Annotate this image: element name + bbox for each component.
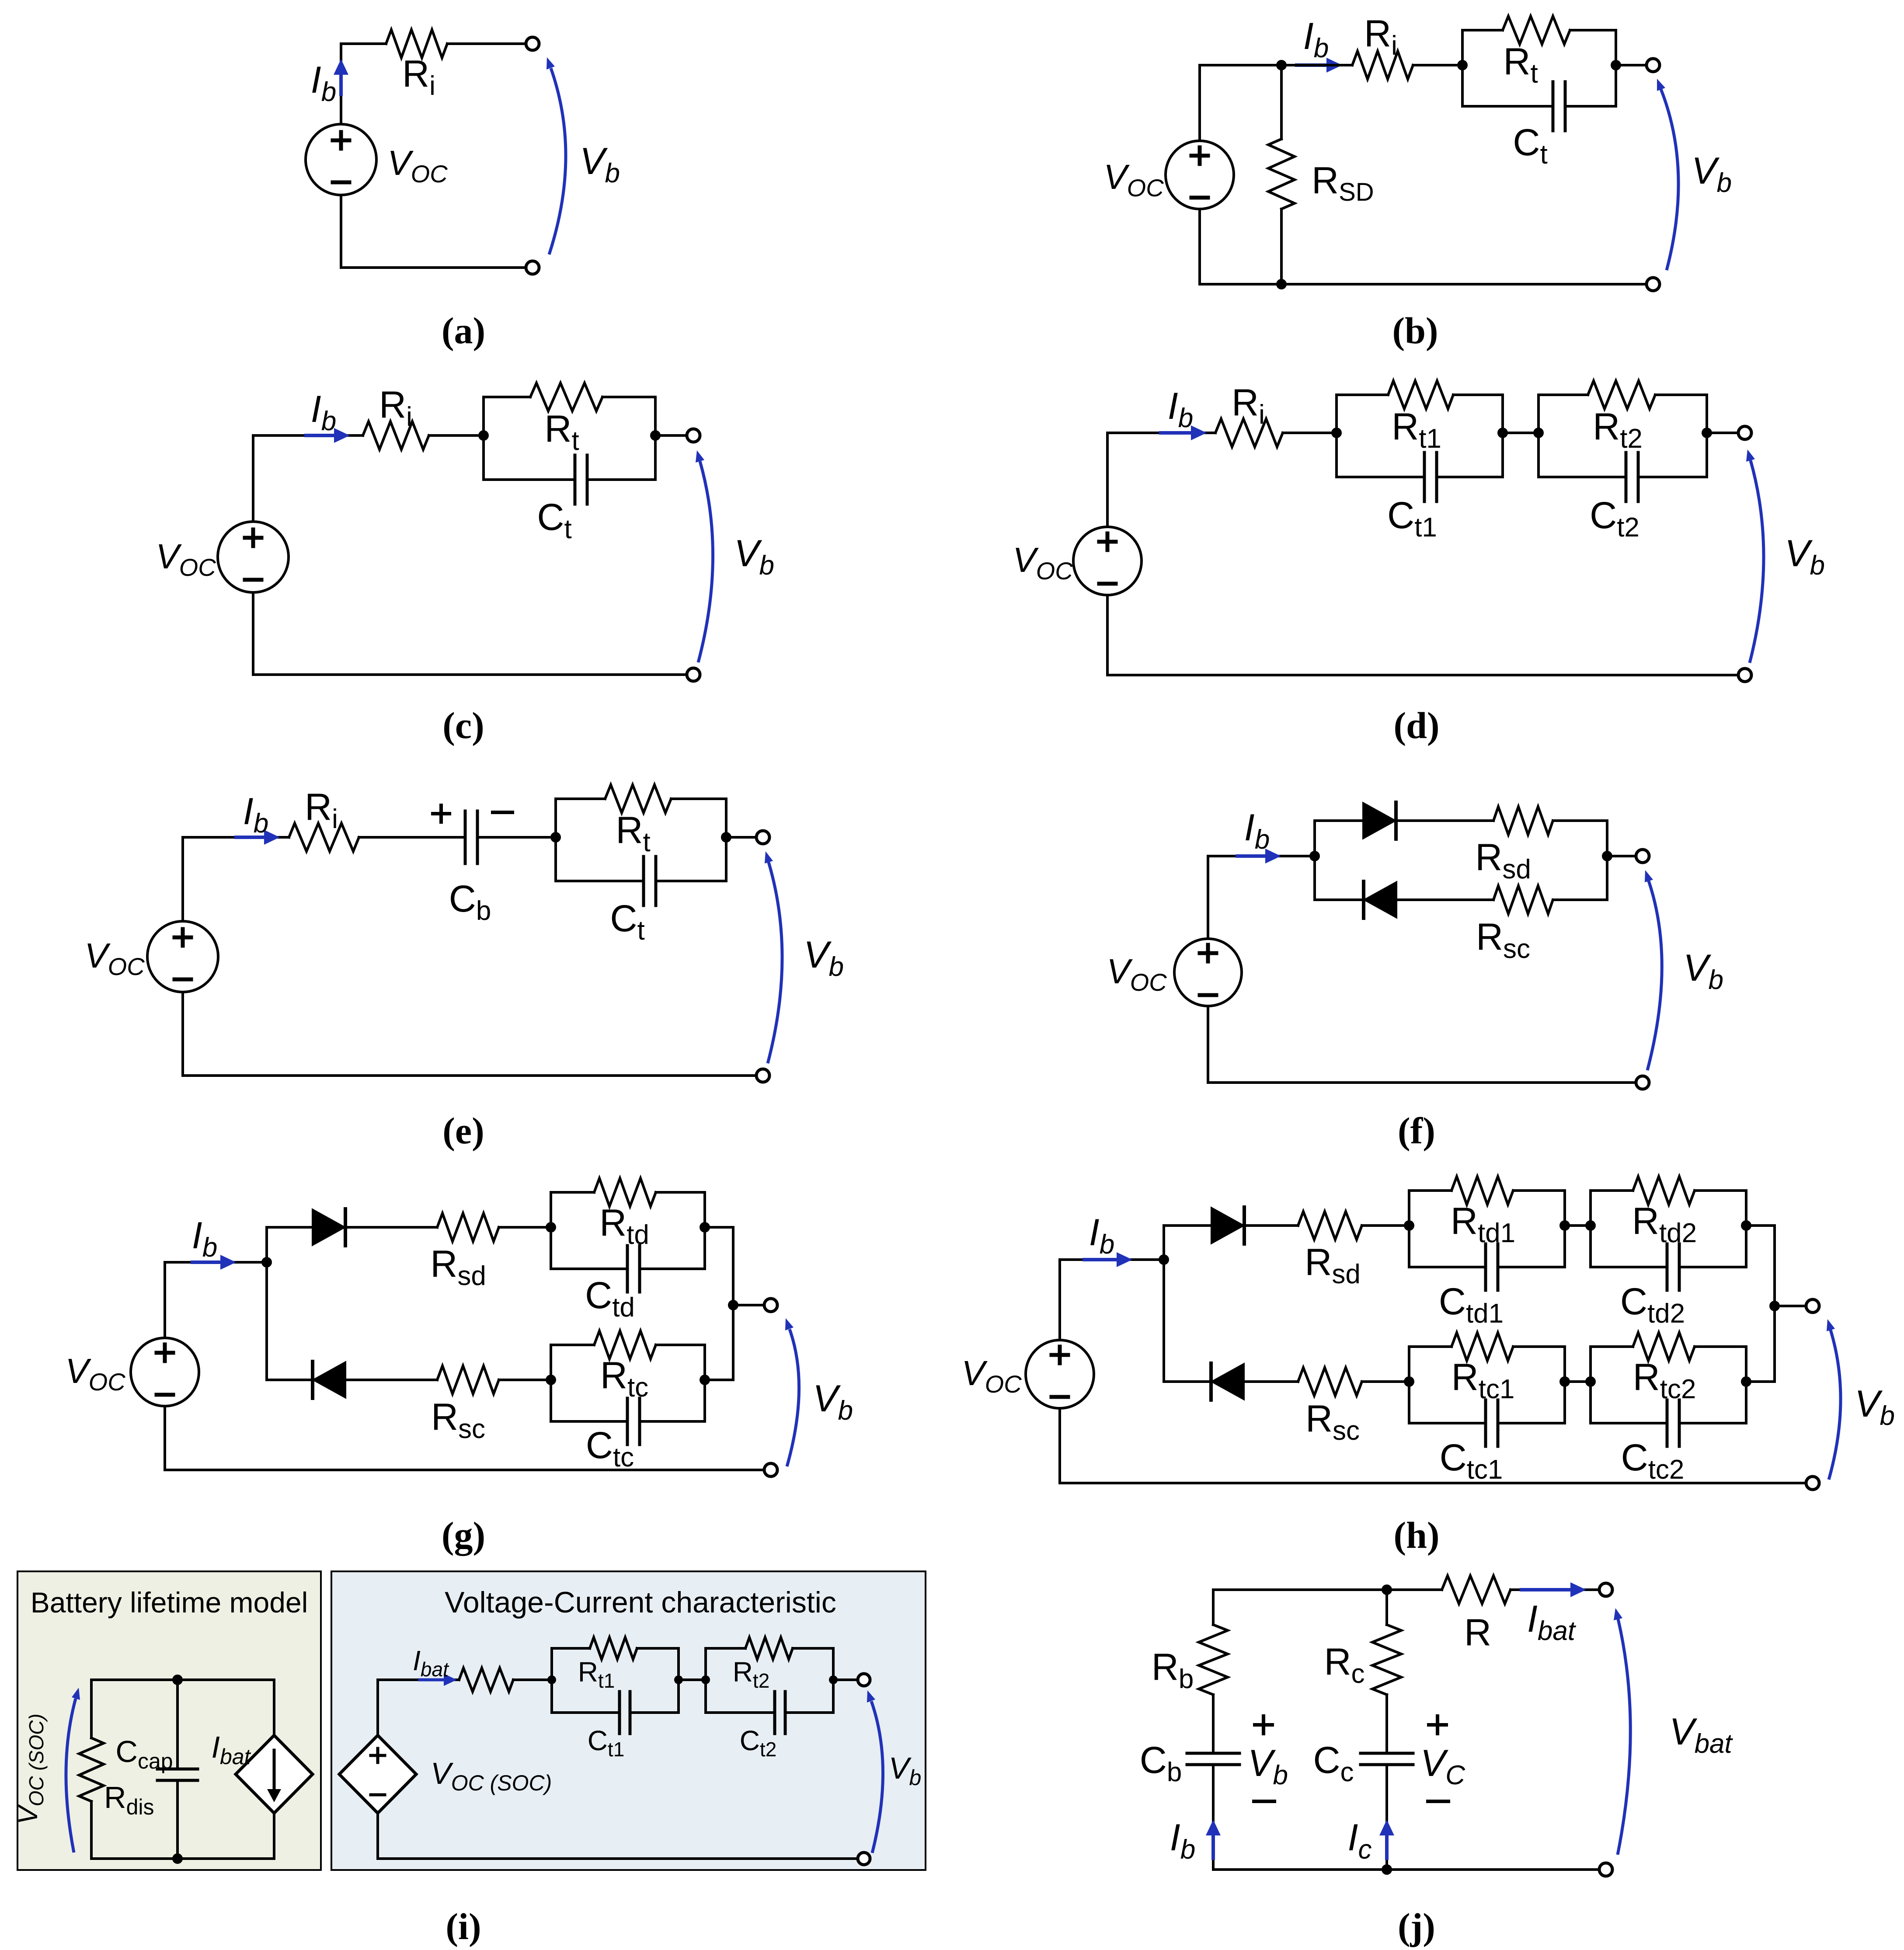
wire boxD to join (g) bbox=[705, 1226, 733, 1229]
svg-text:(b): (b) bbox=[1392, 310, 1438, 352]
node box2 right (d) bbox=[1702, 428, 1712, 438]
discharge branch wire (h) bbox=[1164, 1224, 1211, 1227]
voltage source VOC (c) bbox=[218, 522, 289, 592]
node boxD2 right (h) bbox=[1741, 1220, 1751, 1231]
battery lifetime model box (i) bbox=[17, 1571, 321, 1870]
wire boxC to join (g) bbox=[705, 1379, 733, 1381]
wire Ri to Cb (e) bbox=[359, 836, 465, 839]
voltage arc Vb (f) bbox=[1647, 881, 1662, 1070]
node box1 left (i) bbox=[547, 1675, 556, 1684]
circuit (b): left wire bbox=[1198, 65, 1201, 142]
node boxC1 right (h) bbox=[1559, 1376, 1570, 1387]
resistor Rsc (f) bbox=[1493, 886, 1553, 914]
terminal top (d) bbox=[1738, 426, 1751, 439]
RC box Rt1/Ct1 frame (i) bbox=[550, 1648, 553, 1713]
bottom wire (a) bbox=[341, 266, 526, 269]
svg-text:(d): (d) bbox=[1393, 704, 1439, 746]
node boxC2 left (h) bbox=[1585, 1376, 1596, 1387]
capacitor Ctd2 (h) bbox=[1666, 1244, 1669, 1290]
series resistor (i) bbox=[459, 1668, 513, 1692]
wire RSD lower (b) bbox=[1280, 209, 1283, 284]
voltage arc VOC(SOC) (i) bbox=[66, 1699, 76, 1852]
node Ccap top (i) bbox=[172, 1675, 183, 1685]
top wire (c) bbox=[253, 434, 363, 437]
RC box Rtc2/Ctc2 frame (h) bbox=[1589, 1347, 1592, 1423]
voltage arc Vb (d) bbox=[1750, 460, 1764, 663]
node top middle (j) bbox=[1382, 1584, 1392, 1595]
svg-text:(f): (f) bbox=[1398, 1110, 1435, 1152]
node join (h) bbox=[1769, 1301, 1780, 1311]
RC box Rt2/Ct2 frame (i) bbox=[704, 1648, 707, 1713]
wire to terminal (i) bbox=[833, 1678, 858, 1681]
svg-text:Battery lifetime model: Battery lifetime model bbox=[31, 1586, 308, 1619]
resistor Rtd (g) bbox=[594, 1178, 656, 1206]
resistor Rt2 (i) bbox=[745, 1637, 793, 1659]
terminal bottom (d) bbox=[1738, 669, 1751, 682]
current arrow Ib (a) bbox=[339, 73, 343, 94]
current arrow Ib (j) bbox=[1211, 1834, 1215, 1858]
current source Ibat diamond (i) bbox=[273, 1680, 275, 1735]
wire to terminal (e) bbox=[726, 836, 757, 839]
node split (g) bbox=[261, 1257, 272, 1267]
plus sign Cb (e) bbox=[433, 812, 449, 815]
diode discharge (g) bbox=[312, 1209, 345, 1246]
node box2 left (i) bbox=[701, 1675, 710, 1684]
circuit (f): left wire bbox=[1207, 856, 1209, 939]
wire to Ri (b) bbox=[1281, 64, 1352, 66]
capacitor Cb (e) bbox=[464, 811, 467, 864]
top wire to RSD node (b) bbox=[1200, 64, 1281, 66]
terminal top (g) bbox=[764, 1299, 777, 1312]
node Ccap bottom (i) bbox=[172, 1853, 183, 1864]
resistor Rtc (g) bbox=[594, 1331, 656, 1359]
charge branch wire (g) bbox=[267, 1379, 313, 1381]
capacitor Ctd (g) bbox=[626, 1246, 629, 1292]
diode discharge (f) bbox=[1363, 802, 1396, 839]
capacitor Ctc2 (h) bbox=[1666, 1400, 1669, 1446]
terminal top (f) bbox=[1636, 850, 1649, 863]
wire R to terminal (j) bbox=[1511, 1588, 1600, 1591]
capacitor Ct (c) bbox=[574, 455, 577, 504]
RC box Rtd1/Ctd1 frame (h) bbox=[1408, 1191, 1410, 1267]
node boxD2 left (h) bbox=[1585, 1220, 1596, 1231]
bottom wire (g) bbox=[165, 1469, 765, 1471]
node box left (b) bbox=[1457, 60, 1468, 70]
diode discharge (h) bbox=[1211, 1207, 1244, 1244]
voltage source VOC (h) bbox=[1026, 1340, 1094, 1408]
node at RSD bottom (b) bbox=[1276, 279, 1287, 289]
resistor Rt (e) bbox=[605, 785, 671, 813]
resistor Rt1 (d) bbox=[1388, 381, 1453, 409]
current arrow Ibat (i) bbox=[420, 1678, 446, 1682]
circuit (e): left wire bbox=[181, 837, 184, 921]
node box right (b) bbox=[1611, 60, 1621, 70]
plus sign VC (j) bbox=[1429, 1723, 1446, 1727]
resistor Rdis (i) bbox=[90, 1680, 93, 1738]
circuit (g): left wire bbox=[164, 1262, 166, 1338]
node box right (e) bbox=[721, 832, 731, 843]
charge branch wire (h) bbox=[1164, 1380, 1211, 1383]
resistor Rsd (g) bbox=[437, 1213, 499, 1241]
terminal bottom (c) bbox=[687, 668, 700, 681]
node bottom middle (j) bbox=[1382, 1864, 1392, 1875]
current arrow Ib (g) bbox=[192, 1261, 222, 1264]
top wire (g) bbox=[165, 1261, 267, 1264]
capacitor Ctd1 (h) bbox=[1484, 1244, 1487, 1290]
voltage arc Vb (b) bbox=[1661, 89, 1678, 270]
voltage source VOC (a) bbox=[306, 124, 376, 195]
current arrow Ib (b) bbox=[1297, 63, 1328, 67]
resistor Rsc (g) bbox=[437, 1366, 499, 1394]
wire Ri to box1 (d) bbox=[1283, 432, 1337, 434]
node box right (c) bbox=[650, 430, 661, 441]
circuit (c): left wire bbox=[252, 435, 254, 522]
terminal bottom (j) bbox=[1599, 1863, 1612, 1876]
node boxC1 left (h) bbox=[1404, 1376, 1414, 1387]
resistor Ri (a) bbox=[386, 30, 447, 58]
capacitor Ct (b) bbox=[1552, 82, 1555, 131]
capacitor Ctc (g) bbox=[626, 1398, 629, 1445]
node join (f) bbox=[1602, 851, 1612, 861]
svg-text:(c): (c) bbox=[442, 704, 484, 746]
resistor Rtd1 (h) bbox=[1451, 1177, 1513, 1205]
wire to terminal (c) bbox=[655, 434, 687, 437]
resistor R (j) bbox=[1442, 1576, 1511, 1604]
circuit (a): top wire bbox=[341, 42, 386, 45]
RC box Rtd2/Ctd2 frame (h) bbox=[1589, 1191, 1592, 1267]
branch frame (f) bbox=[1313, 821, 1316, 900]
wire to terminal (g) bbox=[733, 1304, 765, 1306]
minus sign VC (j) bbox=[1428, 1800, 1448, 1803]
resistor RSD (b) bbox=[1268, 139, 1295, 209]
minus sign Vb (j) bbox=[1254, 1800, 1274, 1803]
terminal top (a) bbox=[526, 37, 539, 50]
circuit (j): top wire bbox=[1213, 1588, 1442, 1591]
RC box Rtc/Ctc frame (g) bbox=[550, 1345, 552, 1421]
node boxC right (g) bbox=[700, 1375, 710, 1385]
node boxD right (g) bbox=[700, 1222, 710, 1233]
wire boxC1-boxC2 (h) bbox=[1565, 1380, 1591, 1383]
svg-text:(h): (h) bbox=[1393, 1514, 1439, 1556]
bottom wire (e) bbox=[183, 1074, 757, 1077]
split vertical (h) bbox=[1163, 1226, 1165, 1382]
current arrow Ibat (j) bbox=[1521, 1588, 1572, 1591]
lifetime bottom wire (i) bbox=[91, 1857, 274, 1860]
plus sign Vb (j) bbox=[1255, 1723, 1272, 1727]
node boxC2 right (h) bbox=[1741, 1376, 1751, 1387]
node boxD1 left (h) bbox=[1404, 1220, 1414, 1231]
bottom wire (i) bbox=[378, 1857, 858, 1860]
capacitor Ct1 (i) bbox=[618, 1692, 621, 1734]
voltage arc Vb (e) bbox=[768, 862, 782, 1063]
RC box Rt2/Ct2 frame (d) bbox=[1537, 395, 1540, 477]
wire to terminal (d) bbox=[1707, 432, 1739, 434]
resistor Rsc (h) bbox=[1298, 1368, 1362, 1396]
top wire to resistor (i) bbox=[378, 1678, 459, 1681]
node split (f) bbox=[1309, 851, 1320, 861]
top wire (f) bbox=[1208, 855, 1315, 857]
current arrow Ib (d) bbox=[1161, 431, 1193, 435]
diode charge (g) bbox=[313, 1362, 346, 1398]
resistor Ri (b) bbox=[1352, 51, 1413, 79]
current arrow Ib (f) bbox=[1237, 854, 1267, 858]
resistor Rtd2 (h) bbox=[1633, 1177, 1695, 1205]
resistor Rtc2 (h) bbox=[1633, 1333, 1695, 1361]
terminal top (e) bbox=[756, 831, 769, 844]
wire box1-box2 (i) bbox=[679, 1678, 706, 1681]
RC box Rt/Ct frame (c) bbox=[482, 397, 485, 480]
bottom wire (c) bbox=[253, 673, 687, 676]
capacitor Cc (j) bbox=[1361, 1752, 1413, 1755]
voltage arc Vbat (j) bbox=[1618, 1619, 1630, 1855]
node boxD1 right (h) bbox=[1559, 1220, 1570, 1231]
diode charge (h) bbox=[1211, 1363, 1244, 1400]
wire Ri to box (b) bbox=[1413, 64, 1462, 66]
terminal top (b) bbox=[1646, 59, 1660, 72]
wire to terminal (h) bbox=[1775, 1305, 1807, 1307]
split vertical (g) bbox=[265, 1227, 268, 1380]
wire left vertical (a) bbox=[340, 44, 342, 125]
RC box Rtd/Ctd frame (g) bbox=[550, 1192, 552, 1269]
dependent source VOC(SOC) diamond (i) bbox=[376, 1680, 379, 1735]
circuit (d): left wire bbox=[1106, 433, 1109, 527]
left branch Rb (j) bbox=[1212, 1590, 1215, 1625]
voltage source VOC (b) bbox=[1166, 141, 1234, 209]
voltage source VOC (f) bbox=[1174, 939, 1242, 1006]
svg-text:(j): (j) bbox=[1398, 1905, 1435, 1947]
top wire (e) bbox=[183, 836, 289, 839]
discharge branch wire (g) bbox=[267, 1226, 312, 1229]
wire box1-box2 (d) bbox=[1503, 432, 1539, 434]
wire to terminal (b) bbox=[1616, 64, 1647, 66]
wire boxC2 to join (h) bbox=[1746, 1380, 1775, 1383]
resistor Ri (c) bbox=[363, 421, 429, 449]
terminal bottom (i) bbox=[858, 1852, 870, 1865]
top wire (d) bbox=[1107, 432, 1215, 434]
voltage arc Vb (i) bbox=[871, 1701, 883, 1853]
resistor Rtc1 (h) bbox=[1451, 1333, 1513, 1361]
svg-text:(e): (e) bbox=[442, 1110, 484, 1152]
capacitor Ct (e) bbox=[642, 857, 645, 905]
node at RSD top (b) bbox=[1276, 60, 1287, 70]
RC box Rt1/Ct1 frame (d) bbox=[1335, 395, 1338, 477]
terminal bottom (a) bbox=[526, 261, 539, 274]
svg-text:(g): (g) bbox=[442, 1514, 485, 1556]
current arrow Ib (h) bbox=[1084, 1258, 1118, 1261]
voltage source VOC (d) bbox=[1073, 527, 1142, 595]
resistor Rsd (f) bbox=[1493, 807, 1553, 835]
current arrow Ic (j) bbox=[1385, 1834, 1389, 1858]
resistor Ri (e) bbox=[289, 823, 359, 851]
capacitor Ccap (i) bbox=[176, 1680, 179, 1769]
wire boxD2 to join (h) bbox=[1746, 1224, 1775, 1227]
terminal bottom (f) bbox=[1636, 1076, 1649, 1089]
voltage-current characteristic box (i) bbox=[331, 1571, 926, 1870]
svg-text:R: R bbox=[1464, 1612, 1491, 1654]
middle branch Rc (j) bbox=[1385, 1590, 1388, 1625]
node box2 right (i) bbox=[829, 1675, 838, 1684]
terminal bottom (g) bbox=[764, 1463, 777, 1476]
terminal top (j) bbox=[1599, 1583, 1612, 1596]
bottom wire (h) bbox=[1060, 1482, 1807, 1484]
resistor Ri (d) bbox=[1215, 419, 1283, 447]
bottom wire (j) bbox=[1213, 1868, 1600, 1871]
top wire (h) bbox=[1060, 1258, 1164, 1261]
terminal bottom (e) bbox=[756, 1069, 769, 1082]
node box2 left (d) bbox=[1533, 428, 1544, 438]
terminal bottom (h) bbox=[1806, 1476, 1819, 1490]
node box left (c) bbox=[478, 430, 489, 441]
resistor Rt (b) bbox=[1503, 16, 1570, 44]
minus sign Cb (e) bbox=[493, 811, 512, 814]
svg-text:Voltage-Current characteristic: Voltage-Current characteristic bbox=[445, 1586, 836, 1619]
node box1 right (i) bbox=[674, 1675, 683, 1684]
RC box Rt/Ct frame (e) bbox=[554, 799, 557, 881]
current arrow Ib (c) bbox=[306, 434, 336, 437]
node boxD left (g) bbox=[546, 1222, 556, 1233]
node box1 right (d) bbox=[1497, 428, 1508, 438]
terminal bottom (b) bbox=[1646, 278, 1660, 291]
capacitor Ct1 (d) bbox=[1423, 453, 1426, 501]
diode charge (f) bbox=[1364, 881, 1397, 918]
capacitor Cb (j) bbox=[1187, 1752, 1239, 1755]
wire Ri to box (c) bbox=[429, 434, 484, 437]
resistor Rt1 (i) bbox=[590, 1637, 637, 1659]
bottom wire (b) bbox=[1200, 283, 1647, 286]
capacitor Ct2 (d) bbox=[1625, 453, 1628, 501]
voltage arc Vb (h) bbox=[1829, 1330, 1841, 1480]
voltage source VOC (e) bbox=[147, 921, 218, 992]
svg-text:(a): (a) bbox=[442, 310, 485, 352]
capacitor Ctc1 (h) bbox=[1484, 1400, 1487, 1446]
bottom wire (d) bbox=[1107, 674, 1739, 676]
voltage source VOC (g) bbox=[131, 1338, 199, 1406]
node join (g) bbox=[728, 1300, 738, 1310]
terminal top (i) bbox=[858, 1674, 870, 1686]
resistor Rt2 (d) bbox=[1588, 381, 1655, 409]
wire to terminal (f) bbox=[1607, 855, 1636, 857]
resistor Rt (c) bbox=[530, 383, 602, 411]
wire RSD upper (b) bbox=[1280, 65, 1283, 139]
resistor Rsd (h) bbox=[1298, 1212, 1362, 1240]
terminal top (c) bbox=[687, 429, 700, 442]
current arrow Ib (e) bbox=[236, 836, 266, 839]
RC box Rt/Ct frame (b) bbox=[1461, 30, 1464, 106]
lifetime top wire (i) bbox=[91, 1678, 274, 1681]
voltage arc Vb (a) bbox=[549, 68, 566, 254]
svg-text:(i): (i) bbox=[446, 1905, 481, 1947]
node boxC left (g) bbox=[546, 1375, 556, 1385]
node box1 left (d) bbox=[1331, 428, 1342, 438]
voltage arc Vb (c) bbox=[698, 461, 713, 662]
node split (h) bbox=[1159, 1254, 1169, 1265]
bottom wire (f) bbox=[1208, 1081, 1636, 1084]
node box left (e) bbox=[550, 832, 561, 843]
RC box Rtc1/Ctc1 frame (h) bbox=[1408, 1347, 1410, 1423]
voltage arc Vb (g) bbox=[787, 1329, 799, 1466]
wire Cb to box (e) bbox=[477, 836, 556, 839]
wire boxD1-boxD2 (h) bbox=[1565, 1224, 1591, 1227]
circuit (h): left wire bbox=[1058, 1260, 1061, 1340]
wire to box1 (i) bbox=[513, 1678, 552, 1681]
terminal top (h) bbox=[1806, 1299, 1819, 1313]
capacitor Ct2 (i) bbox=[773, 1692, 776, 1734]
wire below source (a) bbox=[340, 195, 342, 268]
